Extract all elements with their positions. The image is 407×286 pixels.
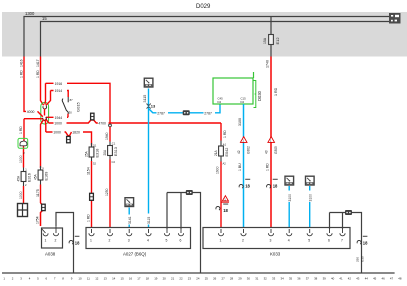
svg-text:G302: G302 [246, 146, 250, 154]
svg-text:1740: 1740 [266, 60, 270, 68]
svg-text:14: 14 [112, 276, 116, 280]
svg-text:250: 250 [356, 257, 360, 262]
svg-text:3115: 3115 [147, 217, 151, 224]
svg-text:18: 18 [245, 184, 250, 189]
wire 1175 below fuse E169 [40, 185, 42, 204]
svg-text:41: 41 [339, 276, 343, 280]
svg-text:2: 2 [109, 239, 111, 243]
svg-text:18: 18 [273, 184, 278, 189]
svg-text:10: 10 [78, 276, 82, 280]
K033 pin 2 [241, 229, 246, 236]
svg-text:4700: 4700 [98, 122, 106, 126]
svg-text:3100: 3100 [288, 194, 292, 202]
svg-text:24: 24 [196, 276, 200, 280]
A038 pin 1 [42, 229, 49, 236]
wire 1740 red right column [270, 57, 272, 231]
control unit D030 green box [213, 78, 253, 104]
svg-text:43: 43 [356, 276, 360, 280]
A027 pin 6 [178, 229, 183, 236]
wire 1416 red from bus 30 [24, 57, 26, 112]
svg-text:38: 38 [314, 276, 318, 280]
inline connector on wire 1175 [41, 203, 44, 226]
svg-text:31: 31 [255, 276, 259, 280]
svg-text:35: 35 [289, 276, 293, 280]
splice triangle on wire 3100 [240, 137, 247, 143]
junction node x110 [109, 124, 112, 127]
svg-text:13: 13 [104, 276, 108, 280]
bus wire 30 [24, 17, 390, 57]
fuse E042 [220, 141, 222, 162]
svg-text:45: 45 [373, 276, 377, 280]
svg-text:E316: E316 [28, 173, 32, 182]
svg-text:1154: 1154 [86, 167, 90, 175]
svg-text:1 RD: 1 RD [87, 214, 91, 222]
svg-text:18: 18 [363, 240, 368, 245]
bus wire 15 [41, 22, 390, 57]
splice triangle on wire 1740 [268, 137, 275, 143]
svg-text:20: 20 [163, 276, 167, 280]
svg-text:3100: 3100 [308, 194, 312, 202]
svg-text:D4: D4 [241, 100, 245, 104]
svg-text:1417: 1417 [36, 59, 40, 67]
svg-text:34: 34 [280, 276, 284, 280]
connector A027 [86, 228, 191, 249]
svg-text:26: 26 [213, 276, 217, 280]
svg-text:12: 12 [95, 276, 99, 280]
svg-text:1 RD: 1 RD [266, 163, 270, 171]
svg-text:5: 5 [166, 239, 168, 243]
svg-text:7: 7 [341, 239, 343, 243]
inline connector on wire 3100 [239, 184, 243, 188]
K033 pin 3 [268, 229, 273, 236]
main wire 1000 horizontal [49, 120, 222, 123]
svg-text:1914: 1914 [55, 89, 63, 93]
inline connector on ground link [186, 190, 193, 195]
ground wires from A027 pins 5 and 6 [167, 193, 201, 273]
sensor B2 [285, 176, 294, 185]
pass-through connector on wire 1154 [90, 193, 94, 200]
wire 1916 [45, 83, 110, 123]
svg-text:1000: 1000 [19, 155, 23, 163]
svg-text:6: 6 [180, 239, 182, 243]
svg-text:G305: G305 [274, 146, 278, 154]
K033 pin 4 [287, 229, 292, 236]
svg-text:2787: 2787 [204, 111, 212, 115]
svg-text:3100: 3100 [238, 118, 242, 126]
wire 3100 from sensor B3 [309, 186, 311, 230]
svg-text:52: 52 [93, 162, 96, 166]
svg-text:15A: 15A [263, 37, 267, 44]
wire 3141 from sensor B4 [128, 208, 130, 231]
svg-text:36: 36 [297, 276, 301, 280]
svg-text:32: 32 [264, 276, 268, 280]
fuse E313 [109, 142, 111, 160]
svg-text:19: 19 [154, 276, 158, 280]
wire 3100 from sensor B2 [288, 186, 290, 230]
svg-text:E169: E169 [45, 172, 49, 181]
svg-text:1000: 1000 [19, 191, 23, 199]
wire below fuse E316 [23, 186, 25, 204]
svg-text:37: 37 [306, 276, 310, 280]
wire 1914 [46, 91, 68, 106]
A038 pin 2 [53, 226, 58, 236]
svg-text:1: 1 [90, 239, 92, 243]
horn housing green [18, 138, 28, 148]
svg-text:27: 27 [221, 276, 225, 280]
svg-text:1000: 1000 [54, 122, 62, 126]
sensor B3 [306, 176, 315, 185]
wire 1417 red from bus 15 [41, 57, 44, 106]
ground wires from K033 pins 6 and 7 [330, 213, 362, 273]
fuse E316 [23, 168, 25, 187]
svg-text:1300: 1300 [25, 11, 35, 16]
ground wire from A038 pin 2 [56, 213, 74, 273]
svg-text:1900: 1900 [216, 166, 220, 174]
svg-text:46: 46 [381, 276, 385, 280]
A027 pin 1 [89, 229, 94, 236]
svg-text:1 RD: 1 RD [20, 70, 24, 78]
wire 1940 to fuse E313 [109, 127, 111, 142]
svg-text:11: 11 [87, 276, 90, 280]
horn symbol [20, 141, 27, 146]
svg-text:48: 48 [398, 276, 402, 280]
svg-text:40: 40 [331, 276, 335, 280]
wire to fuse E042 [220, 123, 222, 230]
svg-text:23: 23 [188, 276, 192, 280]
switch G015 [67, 97, 69, 102]
svg-text:18: 18 [146, 276, 150, 280]
svg-text:39: 39 [323, 276, 327, 280]
svg-text:43: 43 [264, 150, 268, 154]
svg-text:30: 30 [247, 276, 251, 280]
fuse E169 [40, 166, 42, 185]
A027 pin 2 [107, 229, 112, 236]
wire 1154 below fuse E318 [91, 161, 93, 230]
svg-text:A1: A1 [223, 143, 227, 147]
svg-text:1: 1 [220, 239, 222, 243]
svg-text:30: 30 [69, 111, 72, 115]
svg-text:C2: C2 [112, 160, 116, 164]
inline connector on wire 1740 [267, 184, 271, 188]
svg-text:1175: 1175 [36, 189, 40, 197]
fuse E12 in band on wire from bus 30 [270, 17, 272, 35]
svg-text:1754: 1754 [36, 216, 40, 224]
inline connector on wire 1820 [67, 136, 71, 142]
svg-text:E12: E12 [275, 37, 280, 45]
connector pins on wire 3115 [147, 103, 151, 108]
wire 3115 from sensor [148, 89, 150, 231]
sensor B4 above A027 pin 3 [125, 198, 134, 207]
svg-text:28: 28 [230, 276, 234, 280]
svg-text:1916: 1916 [55, 82, 63, 86]
svg-text:42: 42 [237, 150, 241, 154]
svg-text:13: 13 [151, 103, 156, 108]
svg-text:20A: 20A [103, 149, 107, 156]
svg-text:D030: D030 [257, 90, 262, 101]
svg-text:A027 (B6Q): A027 (B6Q) [123, 252, 147, 257]
svg-text:44: 44 [365, 276, 369, 280]
svg-text:17: 17 [137, 276, 141, 280]
svg-text:5: 5 [308, 239, 310, 243]
svg-text:A2: A2 [223, 162, 227, 166]
connector block 4-cell [18, 204, 28, 217]
svg-text:4000: 4000 [27, 110, 35, 114]
wire 1250 below fuse E313 [109, 160, 111, 231]
svg-text:1250: 1250 [105, 188, 109, 196]
K033 pin 5 [307, 229, 312, 236]
inline connector on wire 1000 [91, 113, 94, 120]
inline connector on K033 ground link [345, 210, 352, 215]
svg-text:29: 29 [238, 276, 242, 280]
svg-text:1940: 1940 [105, 132, 109, 140]
svg-text:E313: E313 [114, 147, 118, 156]
A027 pin 3 [127, 229, 132, 236]
svg-text:4: 4 [147, 239, 149, 243]
splice triangle on wire at E042 output [222, 196, 228, 201]
svg-text:1 RD: 1 RD [19, 126, 23, 134]
svg-text:C1: C1 [112, 142, 116, 146]
svg-text:E042: E042 [225, 148, 229, 157]
svg-text:1000: 1000 [53, 131, 61, 135]
K033 pin 6 [327, 229, 332, 236]
K033 pin 7 [340, 229, 345, 236]
svg-text:D4: D4 [218, 100, 222, 104]
svg-text:15: 15 [120, 276, 124, 280]
svg-text:25: 25 [205, 276, 209, 280]
K033 pin 1 [218, 229, 223, 236]
svg-text:22: 22 [179, 276, 183, 280]
svg-text:21: 21 [171, 276, 175, 280]
svg-text:87: 87 [70, 98, 73, 102]
svg-text:18: 18 [75, 240, 80, 245]
svg-text:1: 1 [45, 239, 47, 243]
svg-text:51: 51 [93, 144, 96, 148]
splice junction lower [24, 111, 68, 123]
svg-text:2: 2 [55, 239, 57, 243]
lamp feed wire [23, 119, 26, 168]
svg-text:3115: 3115 [143, 95, 147, 103]
inline connector pin on K033 ground wire [357, 240, 361, 244]
svg-text:6: 6 [328, 239, 330, 243]
battery feed block top right [389, 13, 401, 24]
A027 pin 5 [164, 229, 169, 236]
svg-text:A038: A038 [45, 252, 56, 257]
svg-text:3141: 3141 [128, 216, 132, 224]
ground rail [2, 272, 395, 274]
svg-text:45A: 45A [16, 175, 20, 182]
svg-text:2787: 2787 [157, 111, 165, 115]
svg-text:42: 42 [348, 276, 352, 280]
svg-text:1 RD: 1 RD [36, 70, 40, 78]
svg-text:4: 4 [288, 239, 290, 243]
svg-text:1944: 1944 [55, 116, 63, 120]
svg-text:21A: 21A [214, 149, 218, 156]
svg-text:3: 3 [128, 239, 130, 243]
inline connector on wire 2787 [183, 110, 190, 115]
svg-text:D029: D029 [196, 4, 211, 10]
fuse E318 [91, 143, 93, 161]
inline connector pin below triangle [216, 206, 220, 210]
svg-text:18: 18 [223, 208, 228, 213]
power distribution band [2, 12, 407, 57]
splice housing green [41, 103, 49, 125]
svg-text:16: 16 [129, 276, 133, 280]
svg-text:3: 3 [270, 239, 272, 243]
A027 pin 4 [146, 229, 151, 236]
svg-text:1416: 1416 [20, 59, 24, 67]
svg-text:1 BU: 1 BU [238, 163, 242, 171]
connector K033 [203, 228, 350, 249]
svg-text:47: 47 [390, 276, 394, 280]
svg-text:1 RD: 1 RD [223, 130, 227, 138]
svg-text:33: 33 [272, 276, 276, 280]
svg-text:E318: E318 [96, 149, 100, 158]
wire 2787 branch [149, 104, 221, 113]
svg-text:25A: 25A [84, 150, 88, 157]
svg-text:K033: K033 [270, 252, 281, 257]
wire 1000 branch y132 [46, 132, 92, 146]
wire 3100 from D030 pin [243, 104, 245, 230]
svg-text:1 RD: 1 RD [274, 87, 278, 96]
svg-text:45A: 45A [33, 173, 37, 180]
svg-text:G30: G30 [361, 256, 365, 262]
splice junction upper [43, 106, 47, 109]
svg-text:1820: 1820 [72, 131, 80, 135]
svg-text:2: 2 [242, 239, 244, 243]
svg-text:G015: G015 [76, 101, 81, 112]
connector A038 [42, 228, 63, 248]
sensor B1 (coolant level) [144, 78, 153, 87]
